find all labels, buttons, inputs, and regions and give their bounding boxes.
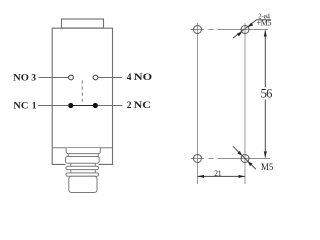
svg-text:56: 56 <box>261 87 273 101</box>
svg-text:NC: NC <box>134 101 151 111</box>
svg-text:NC: NC <box>13 102 28 112</box>
svg-text:2: 2 <box>127 101 132 111</box>
svg-text:4: 4 <box>127 73 132 83</box>
dim 21 arrow right <box>239 175 246 178</box>
switch body <box>52 28 112 164</box>
collar neck <box>68 154 98 157</box>
leader arrow bottom upper <box>237 151 242 156</box>
dashed actuator line <box>81 81 83 105</box>
neck B <box>71 170 96 173</box>
leader arrow top upper <box>248 23 253 27</box>
dim line 56 <box>264 30 266 157</box>
annotation shelf <box>256 19 271 21</box>
svg-text:1: 1 <box>32 102 37 112</box>
neck A <box>71 163 96 166</box>
svg-text:NO: NO <box>134 73 152 83</box>
svg-text:NO: NO <box>13 74 29 84</box>
terminal circle 4NO <box>93 75 98 80</box>
plunger bottom cap <box>69 176 97 192</box>
plunger cap <box>62 19 104 28</box>
leader arrow bottom lower <box>248 161 253 166</box>
top horizontal centerline <box>191 29 269 31</box>
flange nut <box>66 157 100 164</box>
hole top-right <box>241 26 249 34</box>
bushing collar <box>66 148 100 154</box>
vertical centerline right <box>244 23 246 184</box>
dim 56 arrow down <box>264 151 267 158</box>
hole bottom-right <box>241 155 249 163</box>
thread ring C <box>66 173 99 176</box>
leader arrow top lower <box>237 32 242 36</box>
leader 4NO <box>98 77 122 79</box>
dim 56 arrow up <box>264 30 267 37</box>
svg-text:3: 3 <box>31 74 36 84</box>
terminal dot 2NC <box>93 103 98 108</box>
terminal dot NC1 <box>68 103 73 108</box>
leader NC1 <box>38 105 68 107</box>
thread ring B <box>66 166 99 169</box>
svg-text:+M5: +M5 <box>257 19 272 28</box>
leader line bottom hole <box>233 146 256 169</box>
dim line 21 <box>198 175 246 177</box>
hole bottom-left <box>194 155 202 163</box>
vertical centerline left <box>197 23 199 184</box>
leader NO3 <box>39 77 69 79</box>
dim 21 arrow left <box>198 175 205 178</box>
terminal circle NO3 <box>69 75 74 80</box>
bottom horizontal centerline <box>191 158 270 160</box>
contact bar <box>71 105 96 107</box>
leader line top hole <box>233 20 257 38</box>
svg-text:21: 21 <box>214 169 221 178</box>
svg-text:M5: M5 <box>261 163 274 173</box>
leader 2NC <box>98 105 123 107</box>
hole top-left <box>194 26 202 34</box>
body seam line <box>52 147 112 149</box>
